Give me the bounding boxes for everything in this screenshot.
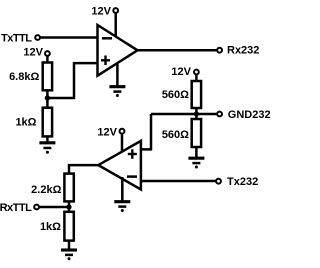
wire R5 bottom through GND232 node to R6 top <box>195 108 198 119</box>
wire U2 output to R3 top <box>69 165 99 174</box>
wire 12V to R5 top <box>195 75 198 81</box>
wire TxTTL to U1 inverting input <box>40 36 98 39</box>
svg-text:1kΩ: 1kΩ <box>15 117 36 129</box>
wire GND232 node to U2 non-inverting input <box>141 114 151 149</box>
svg-text:560Ω: 560Ω <box>162 129 189 141</box>
wire 12V supply into U2 <box>121 134 124 153</box>
wire U1 output to Rx232 <box>137 49 217 52</box>
wire U2 inverting input to Tx232 <box>141 180 216 183</box>
svg-text:12V: 12V <box>97 127 117 139</box>
wire U1 ground pin <box>116 63 119 86</box>
wire GND232 node horizontal <box>151 113 217 116</box>
svg-text:TxTTL: TxTTL <box>1 33 32 45</box>
wire R2 bottom to ground <box>46 136 49 142</box>
op-amp U1 minus glyph <box>102 37 112 40</box>
svg-text:12V: 12V <box>91 5 111 17</box>
terminal GND232 <box>217 112 222 117</box>
junction RxTTL tap <box>66 204 71 209</box>
terminal TxTTL <box>35 35 40 40</box>
wire divider tap to U1 non-inverting input <box>47 63 97 98</box>
ground U2 <box>114 202 130 212</box>
wire R3 bottom to R4 top <box>68 201 71 211</box>
svg-text:6.8kΩ: 6.8kΩ <box>9 71 39 83</box>
resistor R4 1k body <box>64 212 73 241</box>
wire RxTTL terminal to tap <box>40 206 69 209</box>
terminal 12V (left divider) <box>45 51 50 56</box>
junction GND232 node <box>194 111 199 116</box>
op-amp U1 triangle <box>98 25 138 76</box>
svg-text:Rx232: Rx232 <box>227 45 259 57</box>
wire R4 bottom to ground <box>68 241 71 250</box>
svg-text:12V: 12V <box>171 66 191 78</box>
svg-text:12V: 12V <box>23 47 43 59</box>
svg-text:GND232: GND232 <box>228 109 271 121</box>
svg-text:Tx232: Tx232 <box>227 176 258 188</box>
op-amp U2 plus glyph <box>128 149 137 159</box>
svg-text:560Ω: 560Ω <box>162 89 189 101</box>
terminal Rx232 <box>217 48 222 53</box>
resistor R2 1k body <box>43 108 52 137</box>
ground below R6 <box>188 158 204 168</box>
ground below R2 <box>39 143 55 154</box>
svg-text:1kΩ: 1kΩ <box>40 221 61 233</box>
wire R6 bottom to ground <box>195 147 198 158</box>
ground U1 <box>109 87 125 97</box>
op-amp U1 plus glyph <box>101 56 110 66</box>
resistor R1 6.8k body <box>43 63 52 91</box>
terminal 12V (U2 supply) <box>120 129 125 134</box>
wire U2 ground pin <box>121 177 124 201</box>
svg-text:2.2kΩ: 2.2kΩ <box>31 184 61 196</box>
terminal 12V (right divider) <box>194 70 199 75</box>
wire 12V supply into U1 <box>114 14 117 39</box>
terminal 12V (U1 supply) <box>113 8 118 13</box>
op-amp U2 triangle <box>98 141 141 190</box>
resistor R6 560 body <box>192 119 201 147</box>
terminal RxTTL <box>34 205 39 210</box>
wire 12V to R1 top <box>46 57 49 63</box>
svg-text:RxTTL: RxTTL <box>0 202 32 214</box>
resistor R5 560 body <box>192 81 201 108</box>
op-amp U2 minus glyph <box>127 175 137 178</box>
ground below R4 <box>61 250 77 260</box>
junction divider tap <box>45 95 50 100</box>
terminal Tx232 <box>216 179 221 184</box>
wire R1 bottom to R2 top <box>46 90 49 107</box>
resistor R3 2.2k body <box>64 174 73 202</box>
